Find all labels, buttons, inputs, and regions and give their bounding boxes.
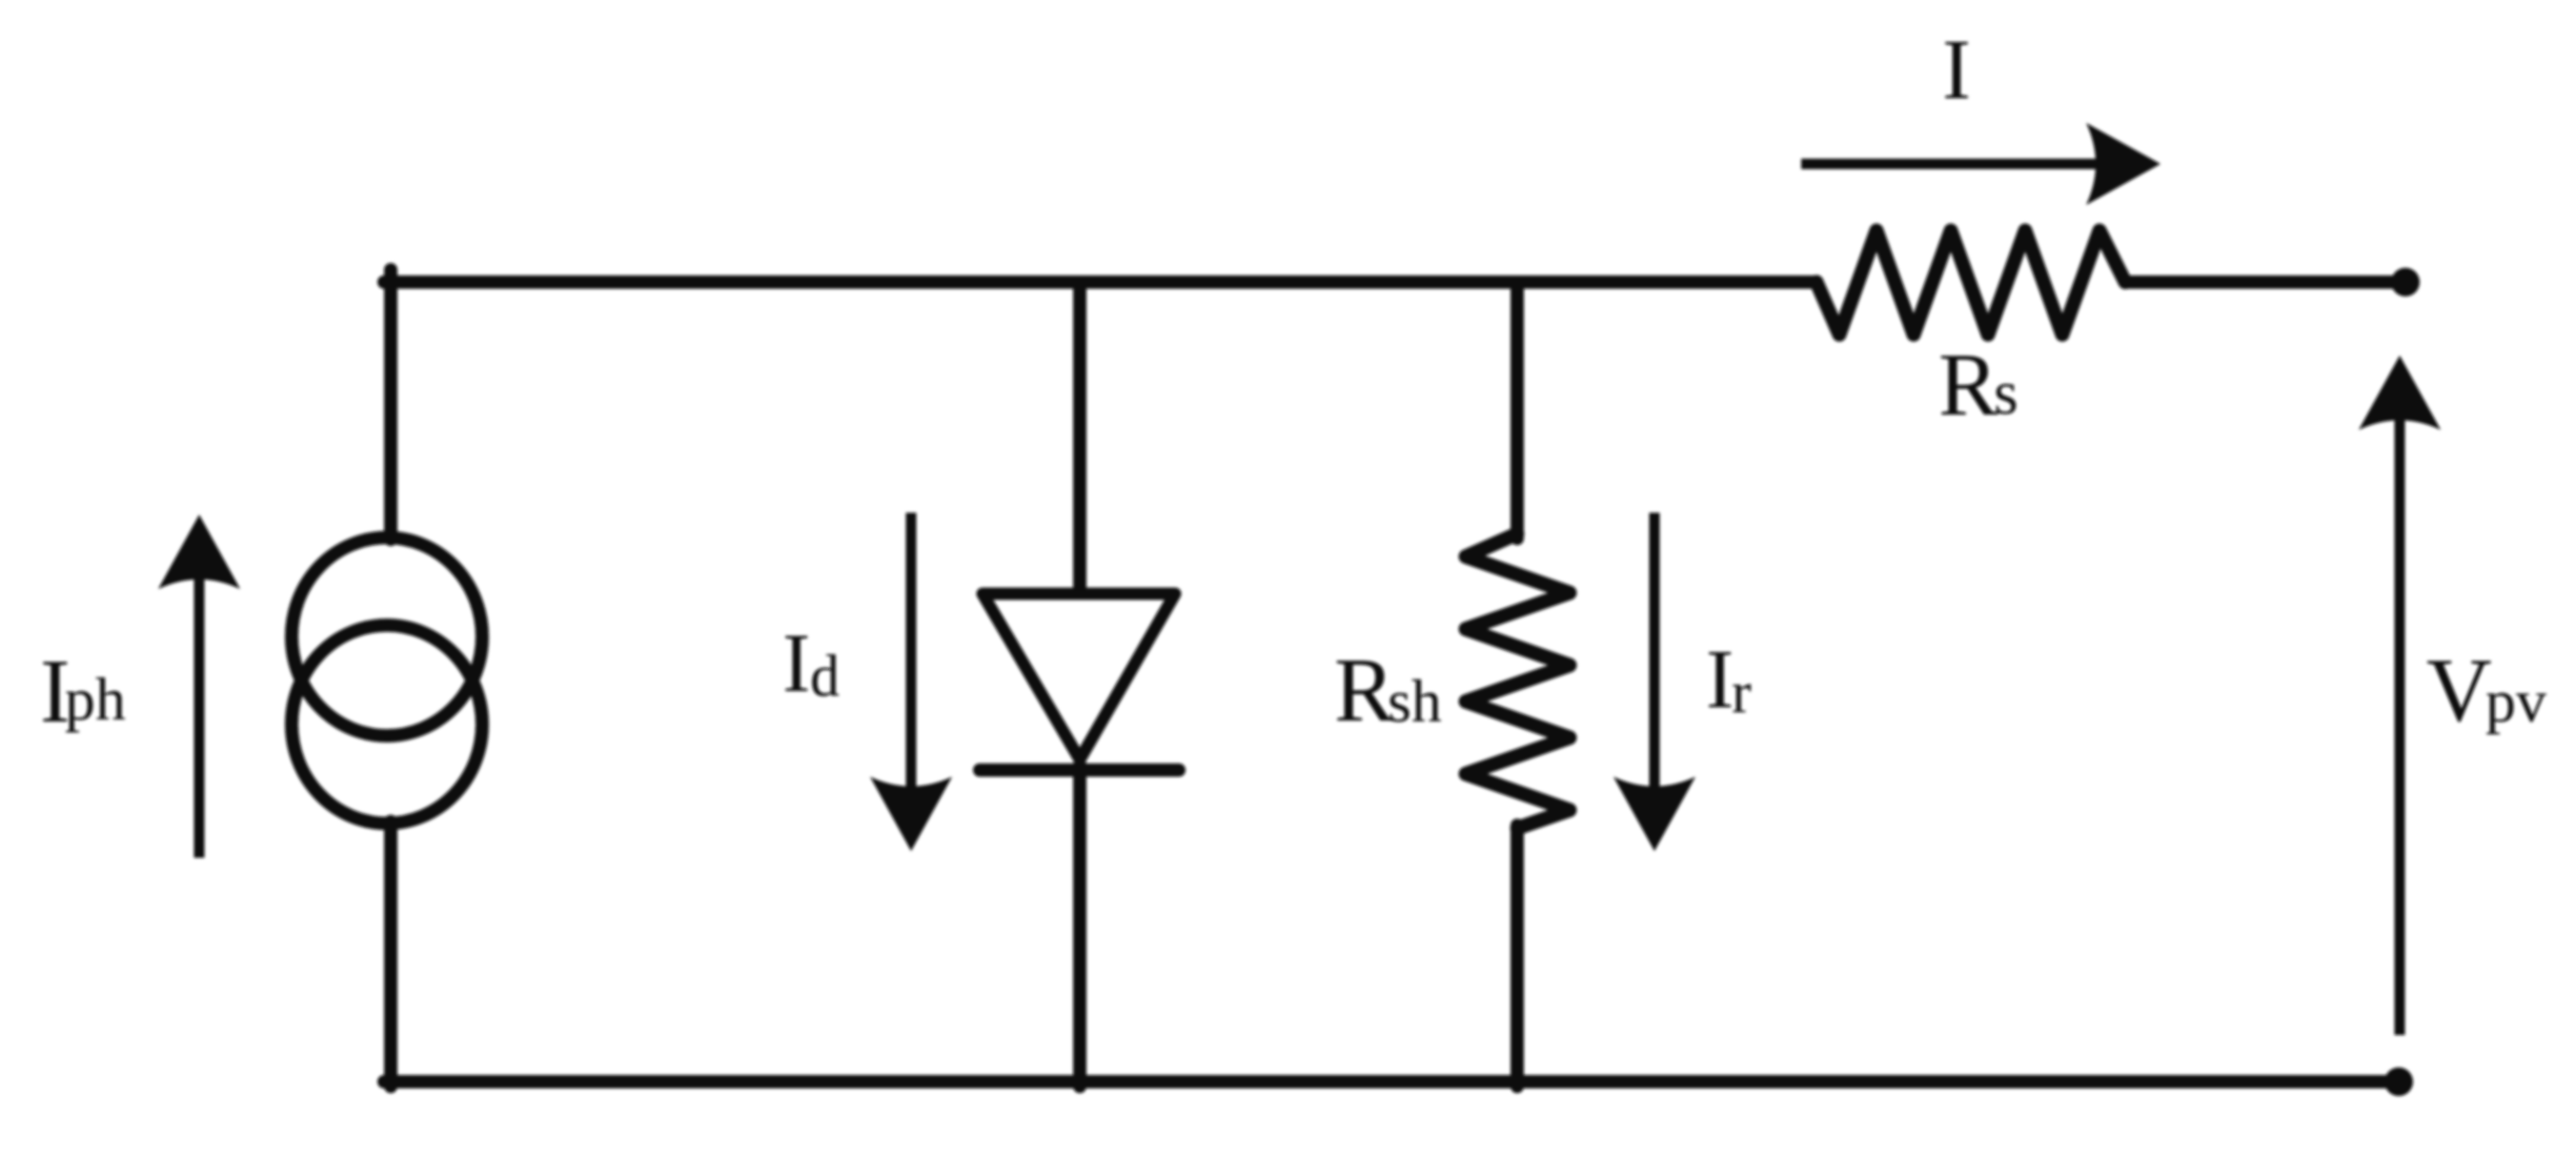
- wire: top bus from left corner to Rs: [384, 275, 1816, 289]
- arrow Iph: shaft: [194, 570, 205, 858]
- wire: diode branch top: [1073, 282, 1086, 589]
- arrow Id: head (down): [870, 777, 952, 851]
- arrow I: head (right): [2086, 123, 2160, 205]
- diode D1: cathode bar: [980, 763, 1179, 777]
- svg-text:s: s: [1994, 358, 2018, 428]
- wire: Rsh branch top: [1511, 282, 1524, 538]
- node: negative output terminal dot: [2384, 1067, 2413, 1096]
- resistor Rsh: vertical zigzag: [1466, 534, 1570, 828]
- svg-text:I: I: [1706, 634, 1734, 726]
- svg-text:pv: pv: [2485, 667, 2546, 735]
- wire: left branch bottom (current source to bottom bus): [384, 822, 397, 1086]
- arrow Iph: head (up): [158, 515, 240, 589]
- resistor Rs: horizontal zigzag: [1816, 231, 2125, 335]
- arrow Id: shaft: [906, 513, 917, 805]
- svg-text:r: r: [1732, 660, 1752, 725]
- svg-text:d: d: [810, 644, 840, 709]
- arrow Vpv: head (up): [2359, 355, 2441, 430]
- wire: left branch top (node to current source): [384, 270, 397, 539]
- node: positive output terminal dot: [2391, 268, 2420, 296]
- svg-text:I: I: [1942, 23, 1971, 117]
- arrow Vpv: shaft: [2395, 408, 2405, 1035]
- wire: Rs to positive output terminal: [2125, 275, 2402, 289]
- svg-text:R: R: [1938, 335, 1998, 435]
- wire: diode branch bottom: [1073, 765, 1086, 1086]
- wire: bottom bus: [384, 1075, 2399, 1088]
- svg-text:R: R: [1334, 639, 1395, 741]
- wire: Rsh branch bottom: [1511, 825, 1524, 1086]
- svg-text:I: I: [782, 618, 810, 710]
- svg-text:sh: sh: [1388, 667, 1442, 735]
- diode D1: triangle: [983, 594, 1175, 760]
- arrow I: shaft: [1801, 159, 2111, 170]
- svg-text:ph: ph: [65, 665, 126, 733]
- arrow Ir: shaft: [1650, 513, 1660, 805]
- current source Iph: lower circle: [292, 625, 482, 823]
- current source Iph: upper circle: [292, 538, 482, 736]
- svg-text:V: V: [2426, 639, 2492, 741]
- arrow Ir: head (down): [1613, 777, 1695, 851]
